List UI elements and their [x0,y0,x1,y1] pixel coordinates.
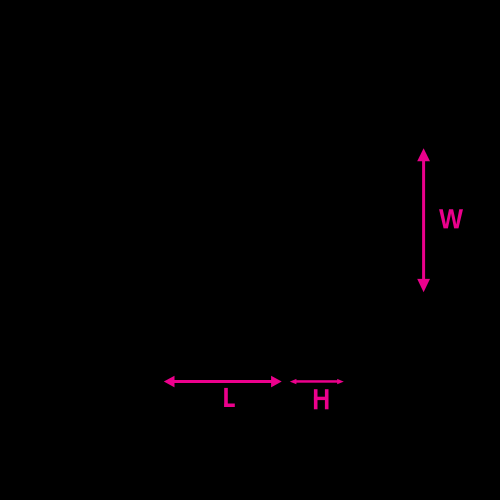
dimension arrow H (horizontal double-headed, small heads) [290,379,344,384]
label H (drawn) [314,389,329,409]
dimension arrow L (horizontal double-headed) [164,376,282,388]
label L (drawn) [224,388,235,407]
label W (drawn glyph) [439,209,463,228]
dimension arrow W (vertical double-headed) [417,148,430,292]
